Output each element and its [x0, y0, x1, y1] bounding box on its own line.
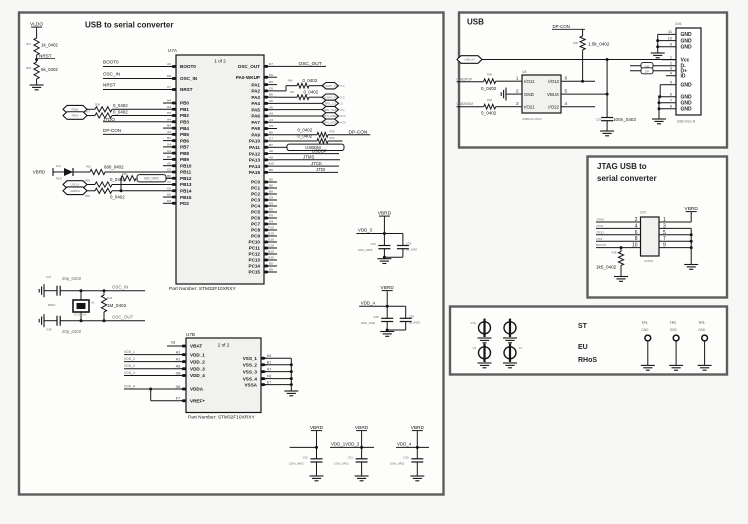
svg-text:PB2: PB2	[180, 113, 189, 118]
svg-text:SPI1_CS: SPI1_CS	[325, 102, 336, 106]
IC U8 designator	[522, 70, 526, 74]
junction VDD_3	[383, 232, 386, 235]
svg-text:H1: H1	[176, 350, 181, 354]
junction 5V rail / C29	[606, 58, 609, 61]
net label VDD_1	[124, 350, 180, 355]
svg-text:3: 3	[670, 67, 672, 71]
svg-text:C9: C9	[269, 196, 273, 200]
stub CN6 ID	[666, 75, 676, 77]
svg-text:A1: A1	[176, 357, 180, 361]
svg-text:USART_RX: USART_RX	[323, 95, 337, 99]
net flag SPI1_MOSI	[322, 119, 346, 125]
svg-text:F10: F10	[268, 226, 274, 230]
resistor R38 1k5_0402	[596, 251, 624, 270]
svg-text:JTMS: JTMS	[596, 218, 604, 222]
svg-text:PC14: PC14	[249, 264, 261, 269]
wire VBRD down C31	[361, 433, 363, 459]
net flag USB_5V	[457, 56, 482, 64]
net label JTCK to PA14	[277, 161, 339, 166]
svg-text:D7: D7	[269, 62, 273, 66]
junction on PB14 wire	[120, 189, 123, 192]
svg-text:VSS_3: VSS_3	[243, 369, 258, 374]
connector CN7 designator	[640, 211, 647, 215]
svg-text:C4: C4	[167, 149, 171, 153]
svg-text:1.5k_0402: 1.5k_0402	[588, 42, 610, 47]
svg-text:20p_0402: 20p_0402	[62, 276, 82, 281]
svg-text:PB6: PB6	[180, 138, 189, 143]
svg-text:USCLK: USCLK	[71, 183, 80, 187]
cap bottom join VDD_A	[386, 322, 406, 332]
svg-text:R60: R60	[330, 136, 335, 140]
svg-text:MOSI: MOSI	[340, 121, 347, 124]
capacitor C34 1u_0402	[397, 242, 418, 252]
CN6 shield pins 11-10-9 bridge	[656, 34, 676, 53]
ground for VSS	[284, 391, 298, 396]
svg-text:E7: E7	[267, 380, 271, 384]
resistor R49 0_0402	[481, 98, 497, 115]
svg-text:4: 4	[670, 72, 672, 76]
svg-text:RXD: RXD	[340, 96, 345, 99]
svg-text:OSC_OUT: OSC_OUT	[112, 314, 134, 319]
svg-text:DP-CON: DP-CON	[103, 128, 121, 133]
sheet title: USB	[467, 18, 484, 27]
svg-text:2: 2	[670, 62, 672, 66]
svg-text:PB9: PB9	[180, 157, 189, 162]
svg-text:JTDO: JTDO	[103, 117, 115, 122]
svg-text:VDD_4: VDD_4	[397, 442, 412, 447]
resistor R67 1k_0402	[26, 38, 58, 55]
svg-text:VSS_4: VSS_4	[243, 376, 258, 381]
svg-text:X1: X1	[91, 301, 95, 305]
svg-text:G4: G4	[167, 105, 171, 109]
svg-text:JTCK: JTCK	[596, 224, 604, 228]
svg-text:A10: A10	[268, 256, 274, 260]
mounting hole V4	[504, 344, 522, 362]
svg-text:U7A: U7A	[168, 48, 178, 53]
svg-text:R45: R45	[573, 41, 578, 45]
svg-text:F8: F8	[267, 374, 271, 378]
svg-text:PC15: PC15	[249, 270, 261, 275]
svg-text:D6: D6	[167, 193, 171, 197]
svg-text:VREF+: VREF+	[190, 398, 205, 403]
svg-text:0_0402: 0_0402	[303, 78, 318, 83]
svg-text:SPI1_MISO: SPI1_MISO	[323, 114, 337, 118]
wire C28 to OSC_OUT	[60, 320, 145, 322]
svg-text:PB5: PB5	[180, 132, 189, 137]
svg-text:A3: A3	[167, 130, 171, 134]
svg-text:ID: ID	[681, 74, 686, 80]
svg-text:11: 11	[668, 30, 672, 34]
svg-text:PC11: PC11	[249, 246, 261, 251]
wire PA5 to flag	[277, 109, 322, 111]
svg-text:V4: V4	[519, 346, 523, 350]
LED DL4 RED	[56, 164, 73, 180]
wire R45 to pin6 row	[582, 50, 584, 81]
wire flag to R63	[87, 184, 95, 186]
svg-text:PC0: PC0	[251, 180, 260, 185]
svg-text:0_0402: 0_0402	[113, 109, 128, 114]
net box DM to CN6 D-	[630, 63, 676, 69]
svg-text:VDDA: VDDA	[190, 387, 204, 392]
svg-text:R46: R46	[288, 79, 293, 83]
svg-text:NX3215SA: NX3215SA	[74, 314, 87, 317]
wire R49 to U8 pin3	[496, 106, 508, 108]
svg-text:USART_TX: USART_TX	[323, 84, 337, 88]
net box USBDM to PA11	[277, 144, 344, 150]
svg-text:B5: B5	[269, 130, 273, 134]
ground C31	[355, 476, 369, 481]
svg-text:0_0402: 0_0402	[481, 110, 497, 115]
svg-text:NRST: NRST	[39, 54, 52, 59]
capacitor C31 100n_0402	[334, 455, 368, 465]
net flag SPI1_CS	[322, 100, 343, 106]
svg-text:SPI1_SCK: SPI1_SCK	[324, 108, 337, 112]
resistor R64 0_0402	[85, 188, 125, 199]
ground below TP1	[641, 365, 655, 370]
capacitor C29 100n_0402	[596, 117, 637, 122]
svg-text:PA0-WKUP: PA0-WKUP	[236, 75, 260, 80]
resistor R47 0_0402 on USART RX	[277, 89, 319, 99]
svg-text:BOOT0: BOOT0	[596, 243, 607, 247]
net label NRST	[103, 83, 163, 90]
svg-text:2: 2	[516, 89, 519, 95]
wire R38 to ground	[620, 266, 622, 277]
svg-text:1: 1	[663, 217, 666, 223]
svg-text:100n_0402: 100n_0402	[390, 462, 405, 466]
svg-text:V3: V3	[473, 346, 477, 350]
svg-text:C36: C36	[409, 315, 415, 319]
svg-text:C30: C30	[403, 455, 409, 459]
U7A right pins OSC_OUT/PA0-WKUP/PA1-PA15/PC0-PC15 with pin numbers	[236, 62, 277, 275]
svg-text:NRST: NRST	[180, 87, 193, 92]
svg-text:USB to serial converter: USB to serial converter	[85, 21, 173, 30]
svg-text:A7: A7	[167, 180, 171, 184]
IC U7B STM32F10XRXY (2 of 2)	[186, 338, 261, 413]
svg-text:A8: A8	[269, 149, 273, 153]
svg-text:1: 1	[670, 56, 672, 60]
test point TP3 GND	[698, 321, 707, 365]
svg-text:5: 5	[663, 230, 666, 236]
svg-text:VDD_4: VDD_4	[124, 371, 135, 375]
wire cap to ground C31	[361, 462, 363, 476]
ground at U8 pin 2	[501, 88, 512, 101]
net label OSC_OUT at PA row	[277, 61, 326, 67]
power flag VBRD at VDD_3	[378, 211, 392, 219]
wire R48 to U8 pin1	[496, 80, 508, 82]
mounting hole V1	[470, 319, 490, 337]
svg-text:1u_0402: 1u_0402	[409, 321, 421, 325]
svg-text:GND: GND	[698, 328, 706, 332]
capacitor C33 100n_0402	[358, 234, 391, 253]
svg-text:H3: H3	[167, 111, 171, 115]
ground VDD_A	[380, 332, 394, 337]
U8 pin 5	[561, 89, 607, 95]
wire R57 to PB2	[112, 115, 163, 117]
net box 680_0402 on PB12 wire	[137, 175, 166, 182]
svg-text:I/O21: I/O21	[524, 105, 535, 110]
svg-text:B9: B9	[269, 190, 273, 194]
wire junction to R66	[120, 178, 122, 191]
svg-text:VSS_2: VSS_2	[243, 363, 258, 368]
wire PA6 to flag	[277, 115, 322, 117]
svg-text:C34: C34	[406, 242, 412, 246]
CN7 pin 1 to VBRD	[659, 213, 691, 223]
wire CN6 Vcc	[662, 59, 676, 61]
net flag RE00 to PB2	[63, 112, 87, 120]
svg-text:GND: GND	[641, 328, 649, 332]
svg-text:GND: GND	[681, 38, 693, 44]
power flag VBRD at CN7	[685, 206, 699, 214]
ground below V3	[478, 363, 492, 368]
net label VDD_A	[124, 384, 180, 389]
svg-text:4: 4	[565, 101, 568, 107]
svg-text:1M_0402: 1M_0402	[107, 303, 127, 308]
svg-text:BOOT0: BOOT0	[103, 60, 119, 65]
svg-text:C29: C29	[596, 118, 602, 122]
power flag VBRD at C30	[411, 425, 425, 433]
svg-text:ST: ST	[578, 323, 588, 330]
svg-text:PA4: PA4	[251, 101, 260, 106]
svg-text:8: 8	[670, 105, 672, 109]
label RHoS	[578, 357, 597, 364]
svg-text:VSSA: VSSA	[244, 382, 257, 387]
CN7 pins 3-5-7-9 to ground bus	[659, 223, 691, 248]
svg-text:1k_0402: 1k_0402	[41, 43, 58, 48]
op-amp U7A designator	[168, 48, 178, 53]
svg-text:F6: F6	[269, 73, 273, 77]
ground C32	[310, 476, 324, 481]
svg-text:E5: E5	[269, 262, 273, 266]
net box DP to CN6 D+	[630, 68, 676, 74]
svg-text:VBUS: VBUS	[547, 92, 559, 97]
net label JTDI to PA15	[277, 167, 338, 172]
svg-text:VDD_4: VDD_4	[190, 373, 205, 378]
svg-text:PB12: PB12	[180, 176, 192, 181]
svg-text:7: 7	[670, 99, 672, 103]
svg-text:5k_0402: 5k_0402	[41, 67, 58, 72]
wire R63 to PB13	[112, 184, 163, 186]
svg-text:4: 4	[635, 223, 638, 229]
svg-text:B3: B3	[167, 136, 171, 140]
net flag USCLK to PB13	[63, 181, 87, 189]
svg-text:R57: R57	[85, 110, 90, 114]
wire DL4 to R61	[73, 171, 90, 173]
svg-text:PC9: PC9	[251, 234, 260, 239]
net label JTDO to PB3	[103, 117, 163, 122]
svg-text:USB: USB	[467, 18, 484, 27]
svg-text:USB2MDM: USB2MDM	[457, 102, 474, 106]
svg-text:B6: B6	[269, 93, 273, 97]
wire USB_5V rail	[482, 59, 676, 61]
svg-text:PC8: PC8	[251, 228, 260, 233]
svg-text:TP2: TP2	[670, 321, 676, 325]
svg-text:PB1: PB1	[180, 107, 189, 112]
CN6 pin names and numbers	[668, 30, 692, 112]
svg-text:JTCK: JTCK	[311, 161, 322, 166]
svg-text:C5: C5	[167, 168, 171, 172]
svg-text:VDD_3: VDD_3	[124, 364, 135, 368]
net label USB2MDM	[457, 102, 484, 107]
resistor R63 0_0402	[85, 177, 125, 187]
svg-text:0_0402: 0_0402	[298, 127, 313, 132]
net label VDD_2	[124, 357, 180, 362]
svg-text:DP-CON: DP-CON	[553, 24, 570, 29]
svg-text:A4: A4	[269, 112, 273, 116]
wire R64 to PB14	[112, 190, 163, 192]
svg-text:PC12: PC12	[249, 252, 261, 257]
ground below C29	[600, 131, 614, 136]
svg-text:PC7: PC7	[251, 222, 260, 227]
wire to second cap VDD_A	[387, 306, 406, 318]
U7B part number label	[188, 415, 255, 421]
net label VDD_4	[396, 442, 429, 448]
connector CN6 USB micro-B	[676, 28, 701, 124]
net label JTDI to CN7 pin 8	[596, 236, 641, 242]
svg-text:CN7: CN7	[640, 211, 647, 215]
junction pin5 / C29 branch	[606, 93, 609, 96]
svg-text:C6: C6	[167, 186, 171, 190]
capacitor C30 100n_0402	[390, 455, 424, 465]
net label VDD_1VDD_2	[330, 442, 374, 448]
net flag USART_RX	[322, 94, 345, 100]
svg-text:100n_0402: 100n_0402	[361, 321, 376, 325]
ground at CN7 bus	[684, 265, 698, 270]
svg-text:0_0402: 0_0402	[304, 89, 319, 94]
wire C29 to ground	[606, 121, 608, 131]
svg-text:2: 2	[635, 217, 638, 223]
net label JTMS to PA13	[277, 155, 340, 160]
svg-text:PB4: PB4	[180, 126, 189, 131]
U7A part number label	[169, 286, 236, 292]
svg-text:G6: G6	[176, 385, 181, 389]
svg-text:D4: D4	[167, 142, 171, 146]
net label VDD_4	[124, 371, 180, 376]
svg-text:R61: R61	[86, 165, 91, 169]
svg-text:I/O11: I/O11	[524, 79, 535, 84]
svg-text:100n_0402: 100n_0402	[358, 248, 373, 252]
resistor R66 680_0402	[121, 172, 136, 181]
svg-text:PB0: PB0	[180, 101, 189, 106]
svg-text:TP3: TP3	[698, 321, 704, 325]
svg-text:C10: C10	[268, 244, 274, 248]
U8 pin 3	[508, 101, 522, 107]
IC U7B designator	[186, 332, 195, 337]
capacitor C36 1u_0402	[400, 315, 421, 325]
svg-text:F7: F7	[176, 397, 180, 401]
net label DP-CON to PB5	[103, 128, 163, 135]
wire R62 to ground	[36, 79, 38, 85]
svg-text:C5: C5	[269, 124, 273, 128]
svg-text:BOOT0: BOOT0	[180, 64, 196, 69]
svg-text:PA3: PA3	[251, 95, 260, 100]
svg-text:A3: A3	[269, 118, 273, 122]
svg-text:VDD_2: VDD_2	[190, 359, 205, 364]
wire cap to ground C30	[416, 462, 418, 476]
svg-text:G9: G9	[269, 220, 273, 224]
svg-text:B6: B6	[167, 174, 171, 178]
svg-text:C28: C28	[46, 328, 52, 332]
crystal X1 8MHz	[48, 291, 95, 321]
svg-text:R66: R66	[122, 172, 127, 176]
svg-text:USB_5V: USB_5V	[464, 58, 475, 62]
svg-text:100n_0402: 100n_0402	[334, 462, 349, 466]
mounting hole V2	[504, 319, 516, 337]
svg-text:2 of 2: 2 of 2	[218, 343, 230, 348]
CN6 GND 6-7-8 bridge	[658, 95, 677, 119]
resistor R59 0_0402 to DP-CON	[277, 127, 335, 137]
svg-text:6: 6	[565, 76, 568, 82]
svg-text:B7: B7	[269, 143, 273, 147]
sheet title: USB to serial converter	[85, 21, 173, 30]
svg-text:8MHz: 8MHz	[48, 303, 56, 307]
wire VBAT stub	[167, 341, 180, 346]
junction R44 bottom	[103, 319, 106, 322]
CN6 GND5 wire	[660, 85, 676, 97]
resistor R45 1.5k_0402	[573, 36, 610, 50]
svg-text:U8: U8	[522, 70, 526, 74]
svg-text:PC2: PC2	[251, 192, 260, 197]
svg-text:PC6: PC6	[251, 216, 260, 221]
wire R47 to flag	[309, 96, 322, 98]
svg-text:GND: GND	[670, 328, 678, 332]
svg-text:PC4: PC4	[251, 204, 260, 209]
junction R44 top	[103, 289, 106, 292]
net flag SPI1_MISO	[322, 113, 346, 119]
net flag RSB0 to PB1	[63, 105, 87, 113]
svg-text:R59: R59	[330, 130, 335, 134]
svg-text:PC10: PC10	[249, 240, 261, 245]
test point TP2 GND	[670, 321, 679, 365]
svg-text:USB2PDP: USB2PDP	[457, 77, 473, 81]
svg-text:VDD_3: VDD_3	[190, 366, 205, 371]
wire flag to R64	[87, 190, 95, 192]
svg-text:PB15: PB15	[180, 195, 192, 200]
junction pin10 / R38	[620, 246, 623, 249]
svg-text:EU: EU	[578, 344, 588, 351]
svg-text:PA6: PA6	[251, 114, 260, 119]
svg-text:JTMS: JTMS	[303, 155, 315, 160]
svg-text:PA1: PA1	[251, 82, 260, 87]
svg-text:PA11: PA11	[249, 145, 260, 150]
svg-text:V1G: V1G	[470, 321, 476, 325]
ground at CN6 GND pins	[652, 119, 666, 124]
svg-text:RED: RED	[56, 176, 62, 180]
svg-text:F9: F9	[269, 214, 273, 218]
svg-text:PC13: PC13	[249, 258, 261, 263]
svg-text:H4: H4	[167, 99, 171, 103]
test point TP1 GND	[641, 321, 650, 365]
resistor R61 680_0402	[86, 165, 124, 175]
wire R61 to PB11	[105, 171, 163, 173]
wire VDDA to VREF+	[151, 389, 180, 401]
svg-text:C8: C8	[171, 341, 176, 345]
svg-text:PA13: PA13	[249, 158, 261, 163]
svg-text:20p_0402: 20p_0402	[62, 329, 82, 334]
svg-text:VDD_A: VDD_A	[124, 384, 136, 388]
capacitor C32 100n_0402	[289, 455, 323, 465]
wire PA7 to flag	[277, 121, 322, 123]
svg-text:C35: C35	[373, 315, 379, 319]
resistor R62 5k_0402	[26, 62, 58, 79]
svg-text:PA10: PA10	[249, 139, 261, 144]
junction C30	[416, 446, 419, 449]
wire R60 right	[328, 140, 343, 142]
svg-text:PA15: PA15	[249, 170, 261, 175]
svg-text:E10: E10	[268, 232, 274, 236]
svg-text:10: 10	[668, 36, 672, 40]
junction crystal top	[80, 289, 83, 292]
svg-text:USB micro B: USB micro B	[677, 120, 695, 124]
